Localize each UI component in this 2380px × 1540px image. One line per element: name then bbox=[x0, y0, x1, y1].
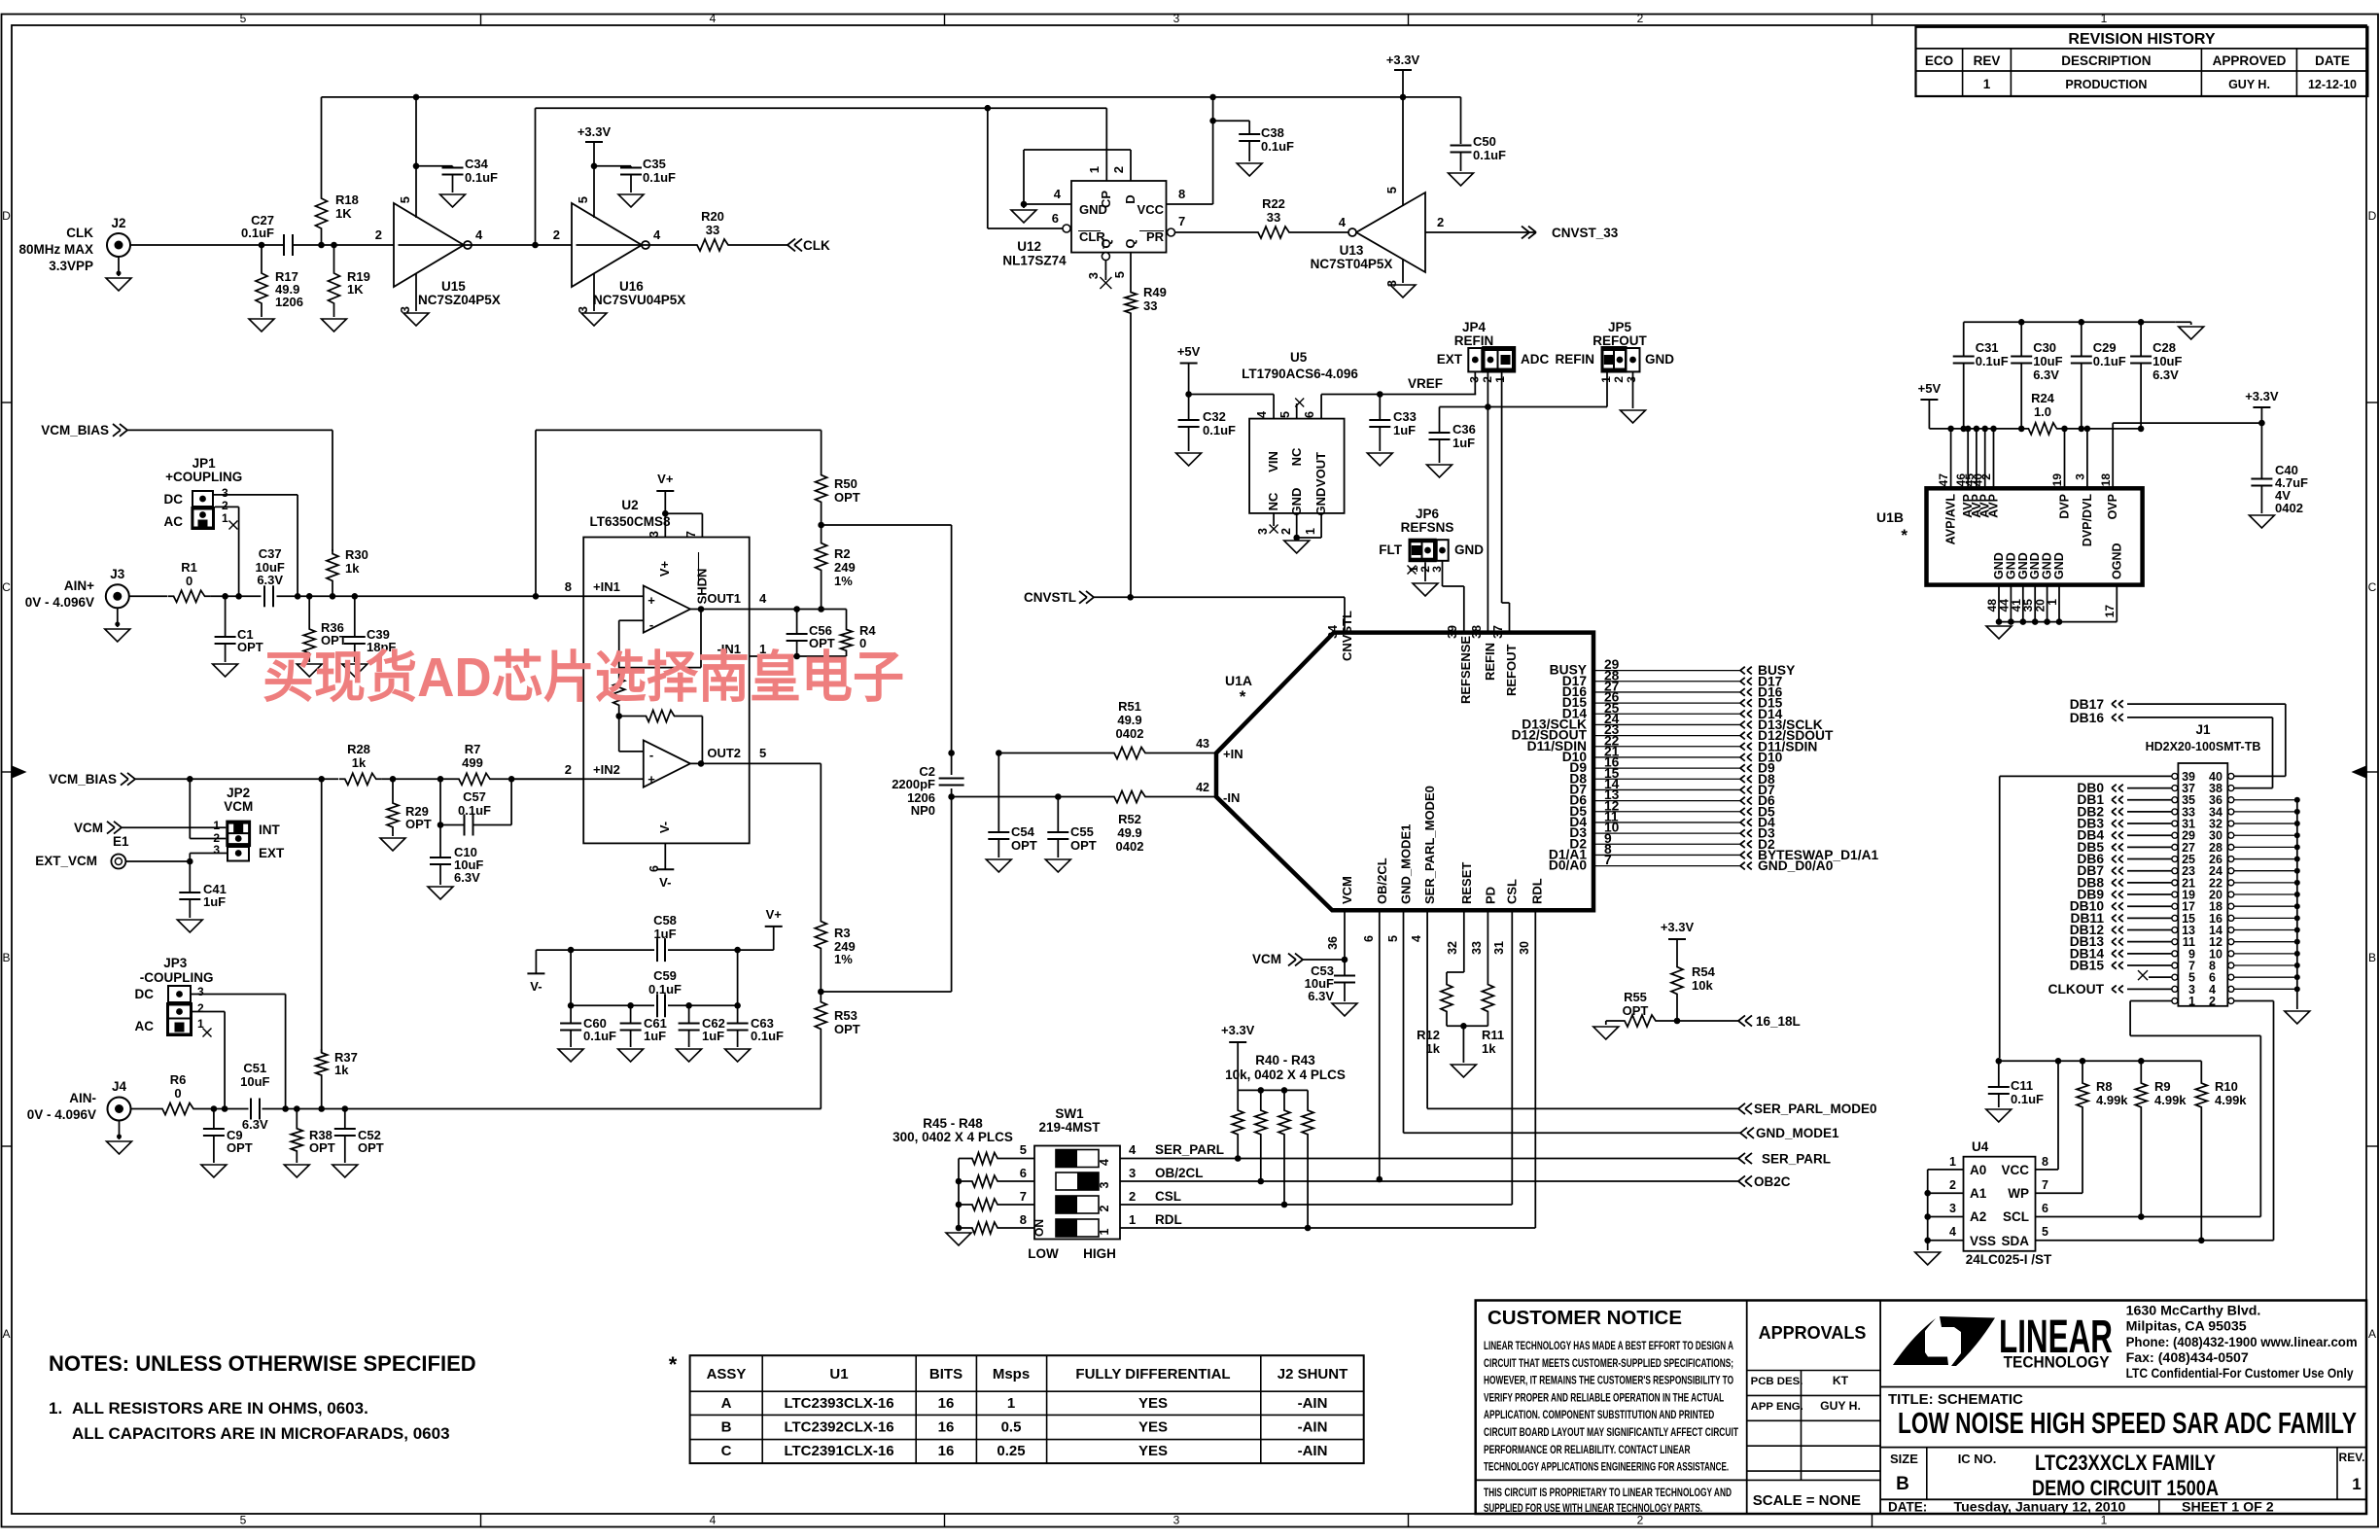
title block outline bbox=[1476, 1301, 2366, 1515]
svg-text:GND_MODE1: GND_MODE1 bbox=[1399, 824, 1414, 904]
wire DB17 bbox=[2127, 703, 2286, 705]
J1 pin 35 circle bbox=[2172, 797, 2178, 803]
net label SER_PARL_MODE0 bbox=[1738, 1103, 1745, 1109]
wire to rail2 bbox=[535, 108, 537, 245]
ground U5 bbox=[1284, 541, 1310, 553]
svg-text:*: * bbox=[669, 1352, 678, 1377]
svg-text:VERIFY PROPER AND RELIABLE OPE: VERIFY PROPER AND RELIABLE OPERATION IN … bbox=[1484, 1390, 1725, 1404]
U12 pin3 Qbar bbox=[1102, 253, 1109, 261]
svg-text:36: 36 bbox=[1326, 936, 1340, 950]
JP6 pin2 ground wire bbox=[1424, 562, 1426, 581]
svg-text:PRODUCTION: PRODUCTION bbox=[2065, 78, 2147, 91]
svg-text:12-12-10: 12-12-10 bbox=[2308, 78, 2357, 91]
net label SER_PARL bbox=[1738, 1153, 1745, 1159]
svg-text:AC: AC bbox=[164, 514, 184, 529]
svg-text:V+: V+ bbox=[657, 472, 674, 486]
svg-text:1: 1 bbox=[1983, 77, 1991, 91]
svg-text:GND_D0/A0: GND_D0/A0 bbox=[1758, 858, 1834, 873]
wire J1 pin 32 to ground bus bbox=[2234, 822, 2297, 824]
svg-text:JP2: JP2 bbox=[227, 786, 250, 800]
svg-text:OPT: OPT bbox=[405, 817, 432, 831]
svg-text:Fax: (408)434-0507: Fax: (408)434-0507 bbox=[2126, 1350, 2249, 1366]
resistor R28 bbox=[339, 773, 382, 785]
capacitor C63 bbox=[737, 1005, 739, 1023]
svg-text:A0: A0 bbox=[1970, 1163, 1986, 1177]
svg-text:NOTES: UNLESS OTHERWISE SPECIF: NOTES: UNLESS OTHERWISE SPECIFIED bbox=[49, 1351, 476, 1376]
svg-text:3: 3 bbox=[1625, 376, 1638, 383]
svg-text:J2 SHUNT: J2 SHUNT bbox=[1277, 1366, 1348, 1382]
svg-text:0.1uF: 0.1uF bbox=[751, 1029, 784, 1043]
wire DB12 bbox=[2127, 929, 2172, 931]
U12 pin4 GND wire bbox=[1024, 203, 1071, 205]
svg-text:1%: 1% bbox=[834, 574, 853, 588]
resistor R40 bbox=[1237, 1090, 1239, 1106]
svg-text:SER_PARL: SER_PARL bbox=[1155, 1142, 1224, 1157]
svg-text:1uF: 1uF bbox=[203, 894, 226, 909]
J1 pin 26 circle bbox=[2228, 857, 2234, 862]
resistor R49 bbox=[1125, 289, 1137, 316]
J1 pin 11 circle bbox=[2172, 939, 2178, 945]
U1A SER_PARL_MODE0 pin 4 wire bbox=[1426, 910, 1428, 1108]
capacitor C54 bbox=[997, 753, 999, 833]
ground J4 bbox=[119, 1121, 121, 1140]
svg-text:1uF: 1uF bbox=[644, 1029, 666, 1043]
svg-text:4: 4 bbox=[1054, 187, 1062, 201]
U1A pin34 wire bbox=[1344, 597, 1346, 632]
R45-48 common rail bbox=[959, 1158, 967, 1160]
svg-text:PCB DES.: PCB DES. bbox=[1751, 1376, 1803, 1387]
ground bypass rail bbox=[2176, 321, 2191, 323]
svg-text:GND: GND bbox=[1645, 352, 1674, 367]
svg-text:3: 3 bbox=[576, 306, 590, 313]
svg-text:30: 30 bbox=[1518, 941, 1531, 955]
U1B GND pins bbox=[1998, 585, 2000, 622]
capacitor C9 bbox=[213, 1109, 215, 1130]
ground R36 bbox=[297, 664, 322, 677]
svg-text:33: 33 bbox=[706, 223, 719, 237]
junction +3.3V rail bbox=[1400, 94, 1407, 101]
SW1 element 1 bbox=[1056, 1219, 1099, 1237]
svg-text:R9: R9 bbox=[2154, 1079, 2171, 1094]
svg-text:1uF: 1uF bbox=[653, 927, 676, 941]
wire J1 pin 34 to ground bus bbox=[2234, 811, 2297, 813]
ground C9 bbox=[201, 1165, 227, 1177]
svg-text:HOWEVER, IT REMAINS THE CUSTOM: HOWEVER, IT REMAINS THE CUSTOMER'S RESPO… bbox=[1484, 1374, 1733, 1387]
svg-text:CNVSTL: CNVSTL bbox=[1024, 590, 1076, 605]
svg-text:A1: A1 bbox=[1970, 1186, 1987, 1201]
op-amp1 feedback wire bbox=[700, 610, 702, 668]
svg-text:5: 5 bbox=[576, 196, 590, 203]
wire to op-amp2 minus bbox=[618, 717, 620, 752]
ground C40 bbox=[2249, 515, 2274, 528]
centering arrow left bbox=[12, 766, 25, 778]
svg-text:EXT: EXT bbox=[1437, 352, 1463, 367]
svg-text:OPT: OPT bbox=[227, 1140, 253, 1155]
ground C54 bbox=[986, 859, 1011, 872]
capacitor C41 bbox=[189, 861, 191, 892]
svg-text:5: 5 bbox=[1386, 935, 1400, 942]
svg-text:47: 47 bbox=[1937, 473, 1950, 487]
svg-text:LT1790ACS6-4.096: LT1790ACS6-4.096 bbox=[1242, 367, 1358, 381]
ground U15 bbox=[403, 313, 429, 326]
svg-text:33: 33 bbox=[1267, 210, 1280, 225]
svg-text:4: 4 bbox=[1410, 935, 1423, 942]
centering arrow right bbox=[2353, 766, 2366, 778]
power +3.3V U13 bbox=[1394, 69, 1412, 71]
svg-text:10k, 0402 X 4 PLCS: 10k, 0402 X 4 PLCS bbox=[1225, 1067, 1346, 1082]
J1 pin 2 circle bbox=[2228, 997, 2234, 1003]
J1 pin 40 circle bbox=[2228, 773, 2234, 779]
resistor R42 bbox=[1281, 1087, 1288, 1094]
inverter U15 bbox=[394, 203, 464, 287]
svg-text:APPROVALS: APPROVALS bbox=[1759, 1323, 1867, 1343]
svg-text:JP1: JP1 bbox=[192, 456, 217, 471]
wire J1 pin1 to SCL bbox=[2130, 999, 2172, 1001]
svg-text:+3.3V: +3.3V bbox=[1661, 920, 1695, 934]
svg-text:B: B bbox=[2368, 951, 2376, 964]
svg-text:AVP: AVP bbox=[1987, 494, 2001, 518]
svg-text:EXT_VCM: EXT_VCM bbox=[35, 854, 97, 868]
svg-text:C59: C59 bbox=[653, 968, 677, 983]
svg-text:AIN+: AIN+ bbox=[64, 578, 94, 593]
wire to C34 bbox=[416, 165, 453, 167]
svg-text:3: 3 bbox=[398, 306, 412, 313]
svg-text:+: + bbox=[647, 772, 655, 787]
resistor R3 bbox=[815, 917, 826, 952]
svg-text:1k: 1k bbox=[1426, 1041, 1441, 1056]
power +3.3V U16 bbox=[585, 141, 603, 143]
svg-text:DESCRIPTION: DESCRIPTION bbox=[2061, 53, 2151, 68]
svg-text:VCC: VCC bbox=[1137, 202, 1165, 217]
svg-text:OPT: OPT bbox=[309, 1140, 335, 1155]
resistor R19 bbox=[329, 268, 340, 307]
resistor R37 bbox=[316, 1049, 328, 1078]
svg-text:GUY H.: GUY H. bbox=[2228, 78, 2270, 91]
proprietary note bbox=[1476, 1479, 1747, 1481]
svg-text:VIN: VIN bbox=[1266, 451, 1280, 472]
svg-text:+5V: +5V bbox=[1918, 381, 1942, 396]
svg-text:-: - bbox=[649, 617, 653, 632]
wire AIN+ line bbox=[211, 595, 262, 597]
net label GND_MODE1 bbox=[1740, 1128, 1747, 1134]
capacitor C2 bbox=[939, 778, 964, 780]
svg-text:R51: R51 bbox=[1118, 699, 1141, 714]
wire J2 to C27 bbox=[130, 244, 280, 246]
svg-text:SER_PARL_MODE0: SER_PARL_MODE0 bbox=[1422, 786, 1437, 904]
junction R18 bbox=[318, 242, 325, 249]
svg-text:Q: Q bbox=[1099, 238, 1113, 248]
svg-text:ECO: ECO bbox=[1925, 53, 1953, 68]
capacitor C35 bbox=[630, 166, 632, 168]
svg-text:18: 18 bbox=[2099, 473, 2113, 487]
svg-text:LTC2392CLX-16: LTC2392CLX-16 bbox=[784, 1419, 893, 1436]
svg-text:C35: C35 bbox=[643, 157, 666, 171]
U13 pin5 wire bbox=[1402, 97, 1404, 206]
svg-text:VCC: VCC bbox=[2001, 1163, 2029, 1177]
svg-text:J3: J3 bbox=[110, 567, 125, 581]
resistor R17 bbox=[256, 268, 267, 307]
svg-text:YES: YES bbox=[1138, 1395, 1168, 1412]
junction 16_18L bbox=[1674, 1018, 1681, 1025]
power V- rail bbox=[536, 949, 571, 951]
svg-text:+COUPLING: +COUPLING bbox=[165, 470, 242, 484]
svg-text:5: 5 bbox=[1384, 187, 1399, 193]
junction node R17 bbox=[259, 242, 265, 249]
svg-text:1K: 1K bbox=[335, 206, 352, 221]
svg-text:1k: 1k bbox=[1482, 1041, 1496, 1056]
J1 pin 31 circle bbox=[2172, 821, 2178, 826]
junction VREF C33 bbox=[1377, 391, 1383, 398]
svg-text:OUT2: OUT2 bbox=[707, 746, 741, 760]
junction C54 bbox=[996, 750, 1002, 756]
svg-text:5: 5 bbox=[1020, 1142, 1027, 1157]
ground C1 bbox=[213, 664, 238, 677]
wire J1 pin 16 to ground bus bbox=[2234, 917, 2297, 919]
svg-text:37: 37 bbox=[1491, 625, 1505, 639]
svg-text:6: 6 bbox=[1362, 935, 1376, 942]
ground R17 bbox=[249, 319, 274, 332]
svg-text:33: 33 bbox=[1143, 298, 1157, 313]
svg-text:49.9: 49.9 bbox=[1117, 713, 1141, 727]
svg-text:-: - bbox=[649, 748, 653, 762]
wire to C35 bbox=[594, 165, 631, 167]
wire J1 pin 20 to ground bus bbox=[2234, 893, 2297, 895]
svg-text:ALL RESISTORS ARE IN OHMS, 060: ALL RESISTORS ARE IN OHMS, 0603. bbox=[72, 1399, 368, 1417]
svg-text:THIS CIRCUIT IS PROPRIETARY TO: THIS CIRCUIT IS PROPRIETARY TO LINEAR TE… bbox=[1484, 1486, 1732, 1499]
svg-text:APPLICATION. COMPONENT SUBSTI: APPLICATION. COMPONENT SUBSTITUTION AND … bbox=[1484, 1408, 1714, 1421]
resistor R41 bbox=[1258, 1087, 1265, 1094]
wire +5V to VIN bbox=[1189, 394, 1275, 396]
U15 pin 5 power wire bbox=[415, 97, 417, 218]
svg-text:C: C bbox=[721, 1443, 732, 1459]
ground C10 bbox=[428, 887, 453, 899]
svg-text:2: 2 bbox=[1979, 473, 1993, 480]
J1 pin 21 circle bbox=[2172, 880, 2178, 886]
svg-text:6.3V: 6.3V bbox=[2033, 367, 2059, 382]
wire J1 pin 18 to ground bus bbox=[2234, 905, 2297, 907]
J1 pin 12 circle bbox=[2228, 939, 2234, 945]
wire J1 pin39 to C11 rail bbox=[2000, 775, 2172, 777]
J1 pin 37 circle bbox=[2172, 786, 2178, 791]
ground R38 bbox=[284, 1165, 309, 1177]
JP4 pin1 wire to REFOUT bbox=[1501, 373, 1503, 604]
capacitor C10 bbox=[439, 825, 441, 858]
capacitor C33 bbox=[1379, 395, 1381, 421]
wire AIN- line bbox=[199, 1108, 249, 1110]
wire to C36 bbox=[1440, 406, 1488, 408]
resistor R6 bbox=[157, 1103, 199, 1115]
J1 pin 38 circle bbox=[2228, 786, 2234, 791]
wire R28 to R7 bbox=[382, 778, 453, 780]
wire J3 to R1 bbox=[129, 595, 167, 597]
ground C34 bbox=[440, 194, 466, 207]
svg-text:16: 16 bbox=[938, 1395, 955, 1412]
svg-text:GND: GND bbox=[2052, 552, 2066, 579]
svg-text:0402: 0402 bbox=[1116, 839, 1144, 854]
svg-text:2: 2 bbox=[553, 227, 560, 242]
svg-text:2: 2 bbox=[1949, 1178, 1956, 1192]
J1 pin 24 circle bbox=[2228, 868, 2234, 874]
wire CLKOUT bbox=[2127, 988, 2172, 990]
JP5 pin1 wire to REFIN bbox=[1606, 373, 1608, 407]
svg-text:3: 3 bbox=[222, 486, 228, 500]
svg-text:APPROVED: APPROVED bbox=[2213, 53, 2287, 68]
svg-text:Milpitas, CA 95035: Milpitas, CA 95035 bbox=[2126, 1319, 2247, 1335]
JP4 pin3 wire to VREF bbox=[1474, 371, 1476, 394]
svg-text:R11: R11 bbox=[1482, 1028, 1504, 1042]
U2 +IN1 pin8 bbox=[536, 595, 644, 597]
wire J1 pin 26 to ground bus bbox=[2234, 858, 2297, 860]
svg-text:R28: R28 bbox=[347, 742, 370, 756]
JP3 pin2 wire bbox=[192, 1011, 225, 1013]
wire DB2 bbox=[2127, 811, 2172, 813]
junction C38 tap bbox=[1209, 118, 1216, 124]
svg-text:GND: GND bbox=[1454, 542, 1484, 557]
svg-text:1: 1 bbox=[1304, 528, 1317, 535]
capacitor C2 net vertical bbox=[951, 525, 953, 775]
svg-text:LTC2393CLX-16: LTC2393CLX-16 bbox=[784, 1395, 893, 1412]
capacitor C56 bbox=[796, 610, 798, 634]
capacitor C27 bbox=[283, 234, 285, 256]
svg-text:3: 3 bbox=[197, 985, 204, 998]
wire U15 out to U16 bbox=[399, 244, 573, 246]
capacitor C29 bbox=[2081, 322, 2082, 356]
connector J1 HD2X20-100SMT-TB bbox=[2178, 763, 2227, 1006]
capacitor C40 bbox=[2260, 423, 2262, 478]
wire SDA bbox=[2036, 1240, 2274, 1242]
svg-text:LTC2391CLX-16: LTC2391CLX-16 bbox=[784, 1443, 893, 1459]
svg-text:C34: C34 bbox=[465, 157, 489, 171]
svg-text:A: A bbox=[721, 1395, 732, 1412]
ground JP5 bbox=[1621, 410, 1646, 423]
svg-text:2: 2 bbox=[375, 227, 382, 242]
ground R12 R11 bbox=[1451, 1065, 1476, 1077]
U1B DVP pins bbox=[2064, 429, 2066, 488]
resistor R12 bbox=[1441, 980, 1452, 1015]
U1B top pin wires AVP bbox=[1950, 429, 1952, 488]
EEPROM U4 24LC025 bbox=[1964, 1157, 2036, 1251]
ground U4 bbox=[1915, 1252, 1941, 1265]
J1 pin5 no connect bbox=[2149, 976, 2172, 978]
net label CLK bbox=[787, 239, 795, 245]
svg-text:U4: U4 bbox=[1972, 1139, 1989, 1154]
U12 pin6 bubble bbox=[1063, 225, 1070, 232]
internal resistor vertical bbox=[613, 674, 625, 709]
svg-text:0V - 4.096V: 0V - 4.096V bbox=[27, 1107, 96, 1122]
svg-text:A2: A2 bbox=[1970, 1209, 1986, 1224]
svg-text:Q: Q bbox=[1123, 238, 1137, 248]
svg-text:C33: C33 bbox=[1393, 409, 1417, 424]
svg-text:GUY H.: GUY H. bbox=[1820, 1399, 1861, 1413]
svg-text:2: 2 bbox=[1637, 1514, 1644, 1527]
junction rail2 CLR bbox=[985, 105, 992, 112]
svg-text:38: 38 bbox=[1470, 625, 1484, 639]
svg-text:J2: J2 bbox=[111, 216, 125, 230]
resistor R43 bbox=[1307, 1090, 1309, 1106]
svg-text:FLT: FLT bbox=[1379, 542, 1402, 557]
wire R7 to U2 bbox=[496, 778, 583, 780]
J1 pin 19 circle bbox=[2172, 892, 2178, 897]
svg-text:1uF: 1uF bbox=[1452, 436, 1475, 450]
wire J1 pin 22 to ground bus bbox=[2234, 882, 2297, 884]
svg-text:D0/A0: D0/A0 bbox=[1549, 858, 1587, 873]
J1 pin 25 circle bbox=[2172, 857, 2178, 862]
wire J1 pin 10 to ground bus bbox=[2234, 953, 2297, 955]
svg-text:R18: R18 bbox=[335, 192, 359, 207]
wire J1 pin 8 to ground bus bbox=[2234, 964, 2297, 966]
svg-text:10uF: 10uF bbox=[2033, 354, 2062, 368]
ADC power section U1B bbox=[1927, 488, 2143, 584]
svg-text:OGND: OGND bbox=[2110, 543, 2123, 580]
svg-text:V+: V+ bbox=[657, 560, 672, 577]
J1 pin 22 circle bbox=[2228, 880, 2234, 886]
svg-text:C: C bbox=[2368, 580, 2377, 594]
svg-text:3.3VPP: 3.3VPP bbox=[49, 259, 93, 273]
svg-text:C29: C29 bbox=[2093, 340, 2117, 355]
svg-text:4: 4 bbox=[1098, 1159, 1111, 1166]
svg-text:+IN1: +IN1 bbox=[593, 579, 620, 594]
svg-text:1: 1 bbox=[222, 511, 228, 525]
svg-text:B: B bbox=[1896, 1474, 1909, 1494]
svg-text:C31: C31 bbox=[1976, 340, 1999, 355]
svg-text:-COUPLING: -COUPLING bbox=[140, 970, 214, 985]
svg-text:SCALE = NONE: SCALE = NONE bbox=[1753, 1492, 1861, 1509]
J1 pin 6 circle bbox=[2228, 974, 2234, 980]
ground C38 bbox=[1237, 163, 1262, 176]
svg-text:3: 3 bbox=[1098, 1181, 1111, 1188]
ground C33 bbox=[1367, 453, 1392, 466]
svg-text:R8: R8 bbox=[2096, 1079, 2113, 1094]
wire DB3 bbox=[2127, 822, 2172, 824]
svg-text:JP6: JP6 bbox=[1416, 507, 1440, 521]
capacitor C59 bbox=[656, 994, 658, 1017]
ground J1 bus bbox=[2285, 1011, 2310, 1024]
voltage reference U5 LT1790ACS6-4.096 bbox=[1249, 419, 1345, 513]
svg-text:SDA: SDA bbox=[2001, 1234, 2029, 1248]
wire J1 pin 12 to ground bus bbox=[2234, 941, 2297, 943]
U12 pin1 CP wire bbox=[1105, 108, 1107, 181]
svg-text:0: 0 bbox=[174, 1086, 181, 1101]
svg-text:CP: CP bbox=[1099, 191, 1113, 208]
svg-text:GND_MODE1: GND_MODE1 bbox=[1756, 1126, 1839, 1140]
U13 pin3 ground wire bbox=[1402, 259, 1404, 283]
svg-text:1: 1 bbox=[213, 819, 220, 832]
svg-text:24LC025-I /ST: 24LC025-I /ST bbox=[1966, 1252, 2052, 1267]
connector J2 CLK input bbox=[107, 233, 130, 257]
wire R22 to U13 bbox=[1295, 231, 1348, 233]
resistor R55 bbox=[1606, 1020, 1619, 1022]
resistor R30 bbox=[327, 549, 338, 584]
resistor R38 bbox=[296, 1109, 297, 1126]
capacitor C37 bbox=[263, 585, 265, 607]
capacitor C38 bbox=[1248, 121, 1250, 134]
svg-text:RDL: RDL bbox=[1155, 1212, 1182, 1227]
ground SW1 resistors bbox=[946, 1233, 971, 1245]
svg-text:Phone: (408)432-1900 www.lin: Phone: (408)432-1900 www.linear.com bbox=[2126, 1335, 2358, 1350]
svg-text:U13: U13 bbox=[1340, 243, 1364, 258]
svg-text:VCM: VCM bbox=[1340, 876, 1354, 904]
ground U16 bbox=[581, 313, 607, 326]
svg-text:J1: J1 bbox=[2195, 722, 2211, 737]
connector J3 AIN+ bbox=[106, 584, 129, 608]
svg-text:4: 4 bbox=[710, 1514, 717, 1527]
svg-text:4: 4 bbox=[475, 227, 483, 242]
U1A RDL pin 30 wire bbox=[1534, 909, 1537, 911]
power +3.3V OVP bbox=[2113, 422, 2261, 424]
U16 pin 5 +3.3V bbox=[593, 166, 595, 218]
capacitor C39 bbox=[354, 596, 356, 637]
svg-text:1: 1 bbox=[2352, 1475, 2361, 1493]
